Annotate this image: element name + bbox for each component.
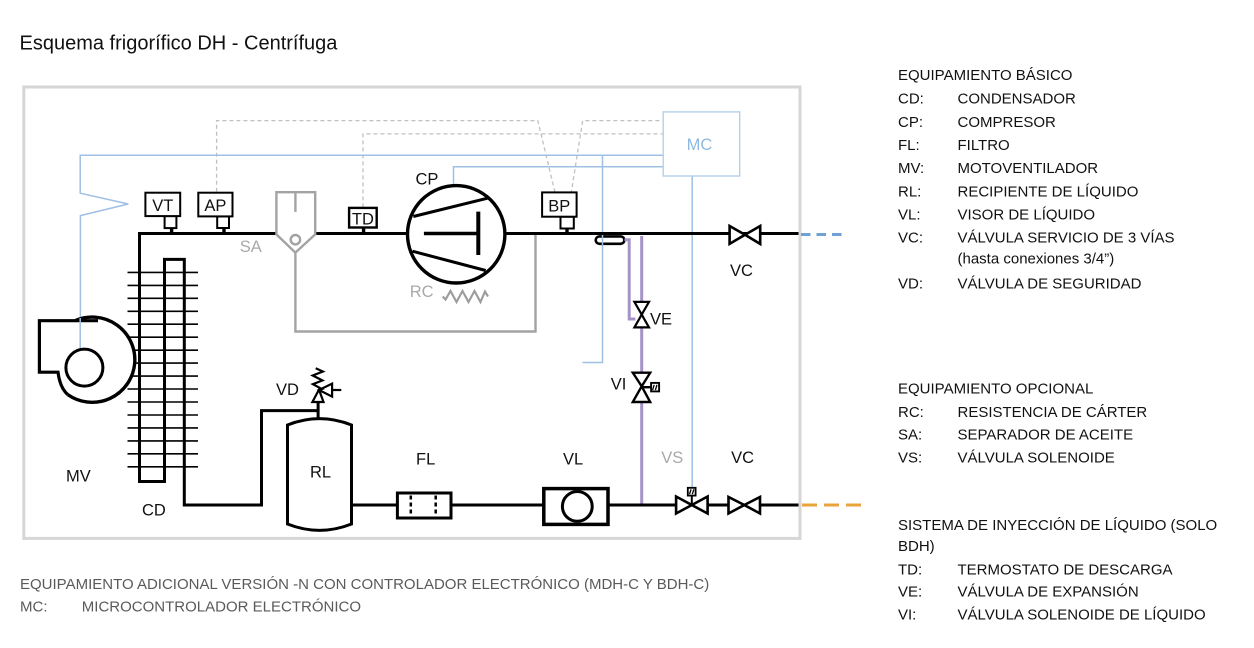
safety valve VD xyxy=(312,390,323,402)
dashed blue suction stub outside frame xyxy=(801,233,843,236)
dashed link BP to MC xyxy=(571,121,663,194)
microcontroller MC box xyxy=(663,112,740,176)
compressor T xyxy=(424,232,478,235)
svg-text:CD: CD xyxy=(142,502,166,520)
main discharge pipe xyxy=(138,232,799,235)
svg-text:RL: RL xyxy=(310,464,331,482)
compressor chords xyxy=(413,198,487,216)
solenoid valve VS xyxy=(676,497,692,514)
svg-text:EQUIPAMIENTO BÁSICO: EQUIPAMIENTO BÁSICO xyxy=(898,67,1072,84)
service valve VC bottom xyxy=(729,497,745,514)
svg-text:VS:: VS: xyxy=(898,450,922,467)
svg-text:VI:: VI: xyxy=(898,607,916,624)
gray oil separator loop with RC heater xyxy=(295,235,535,332)
condenser CD serpentine xyxy=(140,234,319,506)
svg-text:EQUIPAMIENTO OPCIONAL: EQUIPAMIENTO OPCIONAL xyxy=(898,380,1093,397)
svg-text:VS: VS xyxy=(661,449,683,467)
svg-text:VC: VC xyxy=(731,449,754,467)
svg-text:TD:: TD: xyxy=(898,561,922,578)
outer border frame xyxy=(24,87,800,538)
bottom note xyxy=(20,576,709,616)
svg-text:MICROCONTROLADOR ELECTRÓNICO: MICROCONTROLADOR ELECTRÓNICO xyxy=(82,599,361,616)
sensor BP xyxy=(561,217,574,229)
svg-text:RC: RC xyxy=(410,283,434,301)
svg-text:VÁLVULA SOLENOIDE DE LÍQUIDO: VÁLVULA SOLENOIDE DE LÍQUIDO xyxy=(958,607,1206,624)
svg-text:RECIPIENTE DE LÍQUIDO: RECIPIENTE DE LÍQUIDO xyxy=(958,183,1139,200)
filter FL xyxy=(397,493,451,518)
svg-text:VL:: VL: xyxy=(898,206,921,223)
svg-text:TD: TD xyxy=(352,211,374,229)
sensor VT xyxy=(165,216,177,228)
dashed orange liquid stub outside frame xyxy=(802,504,861,507)
svg-text:VISOR DE LÍQUIDO: VISOR DE LÍQUIDO xyxy=(958,206,1096,223)
blue control line MC drop near muffler xyxy=(583,155,603,362)
svg-text:VL: VL xyxy=(563,451,583,469)
muffler on discharge pipe xyxy=(596,236,625,243)
svg-text:VD:: VD: xyxy=(898,275,923,292)
purple injection line main xyxy=(640,236,643,504)
svg-text:SA:: SA: xyxy=(898,426,922,443)
svg-text:CP: CP xyxy=(416,171,439,189)
svg-text:MV:: MV: xyxy=(898,160,924,177)
svg-text:Esquema frigorífico DH - Centr: Esquema frigorífico DH - Centrífuga xyxy=(20,33,339,55)
svg-text:VÁLVULA SERVICIO DE 3 VÍAS: VÁLVULA SERVICIO DE 3 VÍAS xyxy=(958,230,1175,247)
svg-text:FL: FL xyxy=(416,451,435,469)
svg-text:AP: AP xyxy=(204,197,226,215)
svg-text:VÁLVULA DE EXPANSIÓN: VÁLVULA DE EXPANSIÓN xyxy=(958,583,1139,600)
svg-text:BDH): BDH) xyxy=(898,538,935,555)
svg-text:COMPRESOR: COMPRESOR xyxy=(958,114,1057,131)
svg-text:SISTEMA DE INYECCIÓN DE LÍQUID: SISTEMA DE INYECCIÓN DE LÍQUIDO (SOLO xyxy=(898,517,1217,534)
fan MV white body mask xyxy=(50,317,135,402)
sensor AP xyxy=(217,216,229,228)
svg-text:CONDENSADOR: CONDENSADOR xyxy=(958,90,1077,107)
svg-text:SA: SA xyxy=(240,238,262,256)
blue control line MC to MV xyxy=(80,155,663,349)
svg-text:CD:: CD: xyxy=(898,90,924,107)
sensor TD xyxy=(362,228,365,234)
blue control line MC to CP xyxy=(454,167,664,186)
pipe stem into RL top xyxy=(317,402,320,421)
dashed link TD to MC xyxy=(363,134,663,208)
svg-text:FILTRO: FILTRO xyxy=(958,137,1010,154)
solenoid valve VI xyxy=(633,373,650,387)
svg-text:VE: VE xyxy=(650,311,672,329)
svg-text:VD: VD xyxy=(276,381,299,399)
svg-text:VE:: VE: xyxy=(898,583,922,600)
svg-text:VC: VC xyxy=(730,262,753,280)
svg-text:EQUIPAMIENTO ADICIONAL VERSIÓN: EQUIPAMIENTO ADICIONAL VERSIÓN -N CON CO… xyxy=(20,576,709,593)
svg-text:BP: BP xyxy=(548,197,570,215)
svg-text:RESISTENCIA DE CÁRTER: RESISTENCIA DE CÁRTER xyxy=(958,404,1148,421)
svg-text:MC:: MC: xyxy=(20,599,48,616)
fan MV housing arc xyxy=(68,317,135,402)
svg-text:VC:: VC: xyxy=(898,230,923,247)
RC resistor xyxy=(443,291,488,302)
compressor CP circle xyxy=(408,186,505,283)
svg-text:MV: MV xyxy=(66,468,91,486)
condenser fins xyxy=(128,272,199,466)
blue line into fan motor xyxy=(79,318,81,349)
blue control line MC to VS solenoid xyxy=(691,176,693,488)
svg-text:CP:: CP: xyxy=(898,114,923,131)
svg-text:MC: MC xyxy=(687,136,713,154)
bottom liquid pipe xyxy=(352,504,799,507)
sight glass VL xyxy=(544,489,608,525)
legend optional equipment xyxy=(898,380,1147,466)
oil separator SA vessel xyxy=(276,192,315,252)
svg-text:VÁLVULA DE SEGURIDAD: VÁLVULA DE SEGURIDAD xyxy=(958,275,1142,292)
fan MV scroll body xyxy=(39,321,98,395)
svg-text:VÁLVULA SOLENOIDE: VÁLVULA SOLENOIDE xyxy=(958,450,1115,467)
legend basic equipment xyxy=(898,67,1175,292)
fan MV motor circle xyxy=(66,349,103,386)
legend liquid injection system xyxy=(898,517,1217,624)
svg-text:RC:: RC: xyxy=(898,404,924,421)
service valve VC top xyxy=(730,226,745,244)
svg-text:SEPARADOR DE ACEITE: SEPARADOR DE ACEITE xyxy=(958,426,1134,443)
dashed link AP to BP xyxy=(217,121,556,194)
svg-text:MOTOVENTILADOR: MOTOVENTILADOR xyxy=(958,160,1099,177)
liquid receiver RL xyxy=(288,419,352,531)
svg-text:VT: VT xyxy=(152,197,173,215)
svg-text:VI: VI xyxy=(611,376,627,394)
purple branch to VE xyxy=(625,240,636,319)
svg-text:(hasta conexiones 3/4”): (hasta conexiones 3/4”) xyxy=(958,251,1115,268)
svg-text:FL:: FL: xyxy=(898,137,920,154)
svg-text:RL:: RL: xyxy=(898,183,921,200)
expansion valve VE xyxy=(634,302,649,315)
svg-text:TERMOSTATO DE DESCARGA: TERMOSTATO DE DESCARGA xyxy=(958,561,1173,578)
